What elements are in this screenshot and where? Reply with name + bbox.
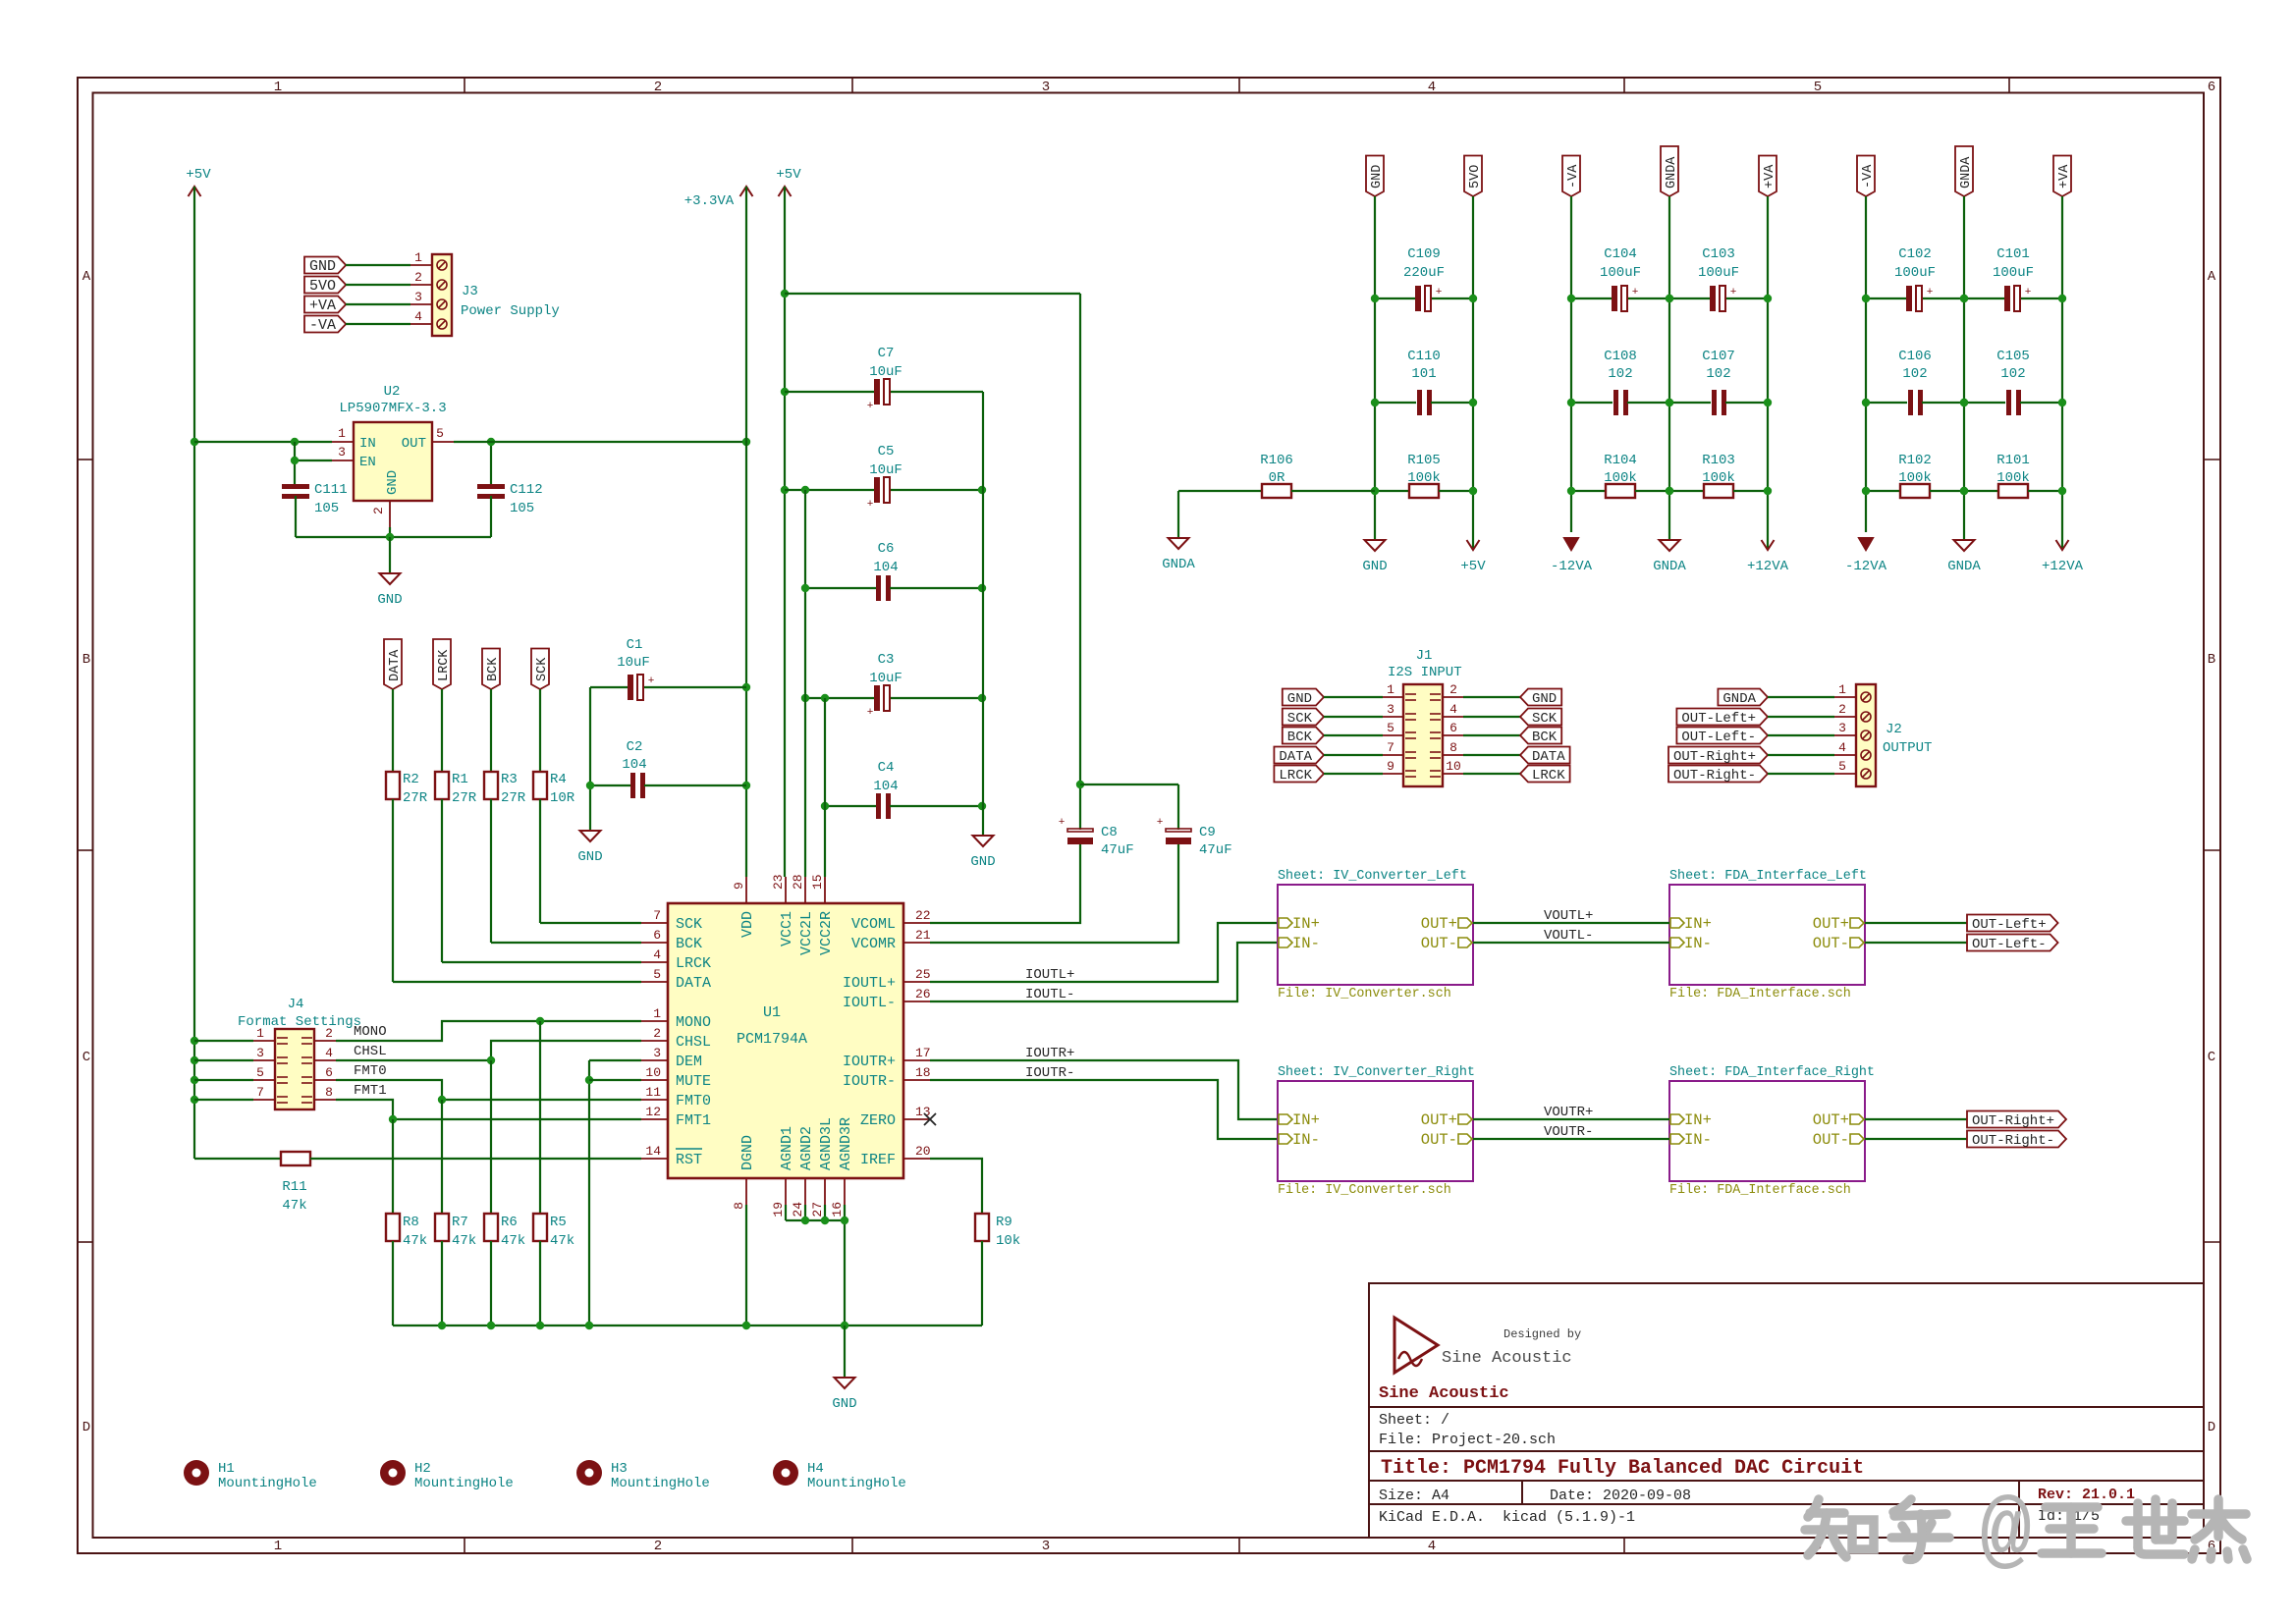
svg-text:+5V: +5V bbox=[776, 167, 801, 183]
svg-text:@: @ bbox=[1980, 1487, 2032, 1584]
svg-text:6: 6 bbox=[653, 928, 661, 943]
power flag -VA bbox=[1562, 156, 1580, 197]
wire FMT1 bbox=[336, 1100, 641, 1119]
wire LRCK to U1 bbox=[441, 799, 443, 962]
net label DATA (J1 left) bbox=[1274, 747, 1324, 764]
svg-text:100uF: 100uF bbox=[1698, 265, 1739, 281]
svg-text:B: B bbox=[82, 652, 90, 668]
svg-text:R2: R2 bbox=[403, 772, 419, 787]
svg-text:OUT-Left+: OUT-Left+ bbox=[1681, 711, 1756, 727]
capacitor C111 105 bbox=[282, 484, 309, 489]
svg-text:VOUTR-: VOUTR- bbox=[1544, 1124, 1593, 1140]
capacitor C8 47uF bbox=[1067, 829, 1093, 832]
svg-text:SCK: SCK bbox=[676, 916, 702, 933]
svg-text:102: 102 bbox=[1902, 366, 1927, 382]
svg-text:FMT1: FMT1 bbox=[354, 1083, 387, 1099]
svg-text:MUTE: MUTE bbox=[676, 1073, 711, 1090]
svg-text:File: Project-20.sch: File: Project-20.sch bbox=[1379, 1432, 1556, 1448]
svg-text:IN+: IN+ bbox=[1292, 1111, 1320, 1129]
resistor R6 47k bbox=[484, 1214, 498, 1241]
svg-text:2: 2 bbox=[414, 270, 422, 285]
svg-text:C6: C6 bbox=[878, 541, 895, 557]
global label DATA bbox=[384, 639, 402, 689]
svg-text:104: 104 bbox=[622, 757, 646, 773]
power +12VA bbox=[1762, 540, 1775, 550]
wire J1 pin 8 bbox=[1443, 754, 1463, 756]
svg-text:Sine Acoustic: Sine Acoustic bbox=[1442, 1349, 1572, 1368]
svg-text:File: FDA_Interface.sch: File: FDA_Interface.sch bbox=[1669, 987, 1851, 1001]
svg-text:BCK: BCK bbox=[676, 936, 702, 952]
wire VCOMR bbox=[930, 844, 1178, 943]
wire +12VA column bbox=[1767, 196, 1769, 548]
logo Sine Acoustic bbox=[1394, 1318, 1438, 1373]
svg-text:9: 9 bbox=[1387, 759, 1394, 774]
svg-text:R101: R101 bbox=[1996, 453, 2030, 468]
svg-text:+5V: +5V bbox=[186, 167, 211, 183]
wire MONO bbox=[336, 1021, 641, 1041]
net label SCK (J1 right) bbox=[1520, 709, 1561, 726]
wire RST to U1 bbox=[310, 1158, 641, 1160]
mounting hole H4 bbox=[773, 1460, 798, 1486]
svg-text:IOUTL+: IOUTL+ bbox=[843, 975, 896, 992]
svg-text:GND: GND bbox=[1287, 691, 1312, 707]
svg-text:IOUTR-: IOUTR- bbox=[843, 1073, 896, 1090]
net label 5VO (J3) bbox=[304, 277, 346, 294]
wire U2 EN bbox=[295, 460, 332, 461]
net label OUT-Left+ (J2) bbox=[1676, 709, 1768, 726]
svg-text:GND: GND bbox=[832, 1396, 856, 1412]
svg-text:OUT-Right+: OUT-Right+ bbox=[1972, 1113, 2054, 1129]
svg-text:MountingHole: MountingHole bbox=[807, 1476, 906, 1491]
svg-text:47uF: 47uF bbox=[1199, 842, 1232, 858]
svg-text:IN+: IN+ bbox=[1684, 1111, 1712, 1129]
net label SCK (J1 left) bbox=[1283, 709, 1324, 726]
svg-text:DATA: DATA bbox=[676, 975, 711, 992]
svg-text:C109: C109 bbox=[1407, 246, 1441, 262]
svg-text:102: 102 bbox=[2000, 366, 2025, 382]
svg-text:C103: C103 bbox=[1702, 246, 1735, 262]
wire J1 pin 7 bbox=[1324, 754, 1383, 756]
svg-text:12: 12 bbox=[645, 1105, 661, 1119]
svg-text:28: 28 bbox=[791, 874, 805, 890]
svg-text:R4: R4 bbox=[550, 772, 567, 787]
svg-text:R11: R11 bbox=[282, 1179, 306, 1195]
wire DATA to U1 bbox=[392, 799, 394, 982]
svg-text:U2: U2 bbox=[384, 384, 401, 400]
svg-text:OUT+: OUT+ bbox=[1813, 1111, 1849, 1129]
svg-text:SCK: SCK bbox=[1532, 711, 1558, 727]
resistor R2 27R bbox=[386, 772, 400, 799]
wire J1 pin 3 bbox=[1324, 716, 1383, 718]
net label LRCK (J1 right) bbox=[1520, 766, 1570, 783]
svg-text:IN-: IN- bbox=[1292, 1131, 1320, 1149]
svg-text:Size: A4: Size: A4 bbox=[1379, 1488, 1449, 1504]
svg-text:-12VA: -12VA bbox=[1845, 559, 1887, 574]
svg-text:MountingHole: MountingHole bbox=[414, 1476, 514, 1491]
wire J2 pin 4 bbox=[1768, 754, 1834, 756]
svg-text:Rev: 21.0.1: Rev: 21.0.1 bbox=[2038, 1487, 2135, 1503]
global label LRCK bbox=[433, 639, 451, 689]
svg-text:MONO: MONO bbox=[354, 1024, 387, 1040]
svg-text:OUT+: OUT+ bbox=[1813, 915, 1849, 933]
wire J1 pin 5 bbox=[1324, 734, 1383, 736]
svg-text:2: 2 bbox=[654, 1539, 662, 1554]
svg-text:LP5907MFX-3.3: LP5907MFX-3.3 bbox=[339, 401, 446, 416]
svg-text:21: 21 bbox=[915, 928, 931, 943]
svg-text:IOUTR+: IOUTR+ bbox=[1025, 1046, 1074, 1061]
wire R5 column bbox=[539, 1021, 541, 1214]
resistor R7 47k bbox=[435, 1214, 449, 1241]
svg-text:EN: EN bbox=[359, 455, 376, 470]
net label BCK (J1 left) bbox=[1283, 728, 1324, 744]
svg-text:SCK: SCK bbox=[535, 657, 550, 681]
svg-text:17: 17 bbox=[915, 1046, 931, 1060]
resistor R3 27R bbox=[484, 772, 498, 799]
wire IOUTR+ bbox=[930, 1060, 1278, 1119]
svg-text:-VA: -VA bbox=[1566, 164, 1581, 189]
svg-text:1: 1 bbox=[414, 250, 422, 265]
svg-text:LRCK: LRCK bbox=[1279, 768, 1312, 784]
svg-text:27R: 27R bbox=[452, 790, 477, 806]
svg-text:2: 2 bbox=[654, 80, 662, 95]
mounting hole H3 bbox=[576, 1460, 602, 1486]
svg-text:+: + bbox=[1059, 817, 1066, 829]
svg-text:C112: C112 bbox=[510, 482, 543, 498]
svg-text:R105: R105 bbox=[1407, 453, 1441, 468]
svg-text:OUT-Left-: OUT-Left- bbox=[1681, 730, 1756, 745]
svg-text:C1: C1 bbox=[627, 637, 643, 653]
svg-text:MONO: MONO bbox=[676, 1014, 711, 1031]
wire R8 column bbox=[392, 1119, 394, 1214]
svg-text:Sheet: FDA_Interface_Right: Sheet: FDA_Interface_Right bbox=[1669, 1065, 1875, 1080]
ground GND (U2) bbox=[380, 573, 401, 584]
power +5V bbox=[1467, 540, 1480, 550]
svg-text:KiCad E.D.A. kicad (5.1.9)-1: KiCad E.D.A. kicad (5.1.9)-1 bbox=[1379, 1509, 1635, 1526]
svg-text:VDD: VDD bbox=[739, 911, 756, 938]
svg-text:47k: 47k bbox=[452, 1233, 476, 1249]
svg-text:104: 104 bbox=[873, 560, 898, 575]
wire FMT0 bbox=[336, 1080, 641, 1100]
svg-text:105: 105 bbox=[510, 501, 534, 516]
svg-text:+: + bbox=[648, 676, 655, 687]
wire J2 pin 2 bbox=[1768, 716, 1834, 718]
wire CHSL bbox=[336, 1059, 491, 1061]
global label SCK bbox=[531, 649, 549, 690]
svg-text:27R: 27R bbox=[403, 790, 428, 806]
svg-text:I2S INPUT: I2S INPUT bbox=[1388, 665, 1462, 680]
hierarchical label OUT-Right- bbox=[1967, 1131, 2066, 1148]
svg-text:B: B bbox=[2208, 652, 2215, 668]
svg-text:IN: IN bbox=[359, 436, 376, 452]
svg-text:LRCK: LRCK bbox=[676, 955, 711, 972]
svg-text:+: + bbox=[867, 707, 874, 719]
net label OUT-Right+ (J2) bbox=[1668, 747, 1768, 764]
svg-text:DGND: DGND bbox=[739, 1135, 756, 1170]
svg-text:D: D bbox=[2208, 1420, 2215, 1435]
svg-text:4: 4 bbox=[1449, 702, 1457, 717]
ground GND (cap stack) bbox=[973, 836, 994, 846]
wire SCK to U1 bbox=[539, 799, 541, 923]
power -12VA bbox=[1564, 538, 1578, 550]
net label OUT-Right- (J2) bbox=[1668, 766, 1768, 783]
svg-text:MountingHole: MountingHole bbox=[218, 1476, 317, 1491]
svg-text:8: 8 bbox=[732, 1202, 746, 1210]
svg-text:C111: C111 bbox=[314, 482, 348, 498]
svg-text:CHSL: CHSL bbox=[354, 1044, 387, 1059]
svg-text:3: 3 bbox=[653, 1046, 661, 1060]
no-connect ZERO pin 13 bbox=[924, 1113, 936, 1125]
svg-text:+VA: +VA bbox=[309, 298, 336, 314]
svg-text:+: + bbox=[1730, 287, 1737, 298]
wire U2 OUT 3.3VA bbox=[454, 441, 746, 443]
svg-text:5: 5 bbox=[653, 967, 661, 982]
wire J3 pins bbox=[346, 264, 410, 266]
wire ground bus bbox=[393, 1325, 982, 1326]
svg-text:23: 23 bbox=[771, 874, 786, 890]
svg-text:AGND2: AGND2 bbox=[798, 1126, 815, 1170]
wire R7 to bus bbox=[441, 1241, 443, 1325]
wire RST bbox=[194, 1158, 281, 1160]
svg-text:GND: GND bbox=[385, 470, 401, 495]
watermark zhihu bbox=[1805, 1499, 1949, 1559]
hierarchical label OUT-Left- bbox=[1967, 935, 2058, 951]
svg-text:C2: C2 bbox=[627, 739, 643, 755]
svg-text:20: 20 bbox=[915, 1144, 931, 1159]
svg-text:R9: R9 bbox=[996, 1215, 1012, 1230]
svg-text:-VA: -VA bbox=[1861, 164, 1876, 189]
svg-text:10uF: 10uF bbox=[617, 655, 650, 671]
svg-text:47k: 47k bbox=[550, 1233, 574, 1249]
svg-text:IOUTL-: IOUTL- bbox=[1025, 987, 1074, 1002]
power GND bbox=[1365, 540, 1386, 551]
net label GND (J3) bbox=[304, 257, 346, 274]
svg-text:J4: J4 bbox=[288, 997, 304, 1012]
net label BCK (J1 right) bbox=[1520, 728, 1561, 744]
svg-text:File: IV_Converter.sch: File: IV_Converter.sch bbox=[1278, 987, 1451, 1001]
wire C1/C2 ground column bbox=[589, 687, 591, 831]
net label LRCK (J1 left) bbox=[1274, 766, 1324, 783]
svg-text:5: 5 bbox=[1814, 80, 1822, 95]
wire IOUTR- bbox=[930, 1080, 1278, 1139]
svg-text:GNDA: GNDA bbox=[1665, 156, 1679, 189]
hierarchical label OUT-Left+ bbox=[1967, 915, 2058, 932]
svg-text:Designed by: Designed by bbox=[1503, 1327, 1581, 1341]
svg-text:OUT-Left+: OUT-Left+ bbox=[1972, 917, 2047, 933]
svg-text:10R: 10R bbox=[550, 790, 575, 806]
svg-text:GNDA: GNDA bbox=[1653, 559, 1686, 574]
svg-text:C104: C104 bbox=[1604, 246, 1637, 262]
resistor R9 10k bbox=[975, 1214, 989, 1241]
svg-text:FMT0: FMT0 bbox=[676, 1093, 711, 1109]
svg-text:5: 5 bbox=[436, 426, 444, 441]
wire OUT-Right- bbox=[1865, 1138, 1967, 1140]
svg-text:Sheet: IV_Converter_Right: Sheet: IV_Converter_Right bbox=[1278, 1065, 1475, 1080]
svg-text:Sine Acoustic: Sine Acoustic bbox=[1379, 1384, 1509, 1403]
wire LRCK to resistor bbox=[441, 689, 443, 772]
svg-text:2: 2 bbox=[1838, 702, 1846, 717]
svg-text:10: 10 bbox=[1446, 759, 1461, 774]
svg-text:GND: GND bbox=[1362, 559, 1387, 574]
svg-text:47k: 47k bbox=[501, 1233, 525, 1249]
wire SCK to resistor bbox=[539, 689, 541, 772]
svg-text:+: + bbox=[1927, 287, 1934, 298]
svg-text:10: 10 bbox=[645, 1065, 661, 1080]
title block bbox=[1369, 1283, 2204, 1538]
wire GNDA column bbox=[1963, 196, 1965, 540]
svg-text:7: 7 bbox=[1387, 740, 1394, 755]
svg-text:OUT: OUT bbox=[402, 436, 426, 452]
net label GNDA (J2) bbox=[1718, 689, 1768, 706]
wire J1 pin 9 bbox=[1324, 773, 1383, 775]
wire J1 pin 4 bbox=[1443, 716, 1463, 718]
svg-text:+VA: +VA bbox=[1763, 164, 1777, 189]
svg-text:4: 4 bbox=[1838, 740, 1846, 755]
svg-text:C101: C101 bbox=[1996, 246, 2030, 262]
U1 right pin stubs and numbers bbox=[903, 922, 930, 924]
svg-text:+: + bbox=[867, 499, 874, 511]
wire R6 to bus bbox=[490, 1241, 492, 1325]
net label -VA (J3) bbox=[304, 316, 346, 333]
svg-text:27: 27 bbox=[810, 1202, 825, 1217]
U1 top pin stubs and numbers bbox=[745, 877, 747, 903]
svg-text:VCC2R: VCC2R bbox=[818, 911, 835, 955]
svg-text:C110: C110 bbox=[1407, 349, 1441, 364]
svg-text:GNDA: GNDA bbox=[1947, 559, 1981, 574]
svg-text:VCC2L: VCC2L bbox=[798, 911, 815, 955]
wire VOUTR- bbox=[1473, 1138, 1669, 1140]
wire DATA to resistor bbox=[392, 689, 394, 772]
hierarchical label OUT-Right+ bbox=[1967, 1111, 2066, 1128]
wire OUT-Left- bbox=[1865, 942, 1967, 944]
svg-text:8: 8 bbox=[325, 1085, 333, 1100]
svg-text:Title: PCM1794 Fully Balanced: Title: PCM1794 Fully Balanced DAC Circui… bbox=[1381, 1457, 1864, 1480]
resistor R8 47k bbox=[386, 1214, 400, 1241]
svg-text:OUT-: OUT- bbox=[1421, 935, 1457, 952]
wire R6 column bbox=[490, 1060, 492, 1214]
svg-text:VCC1: VCC1 bbox=[779, 911, 795, 947]
svg-text:1: 1 bbox=[274, 80, 282, 95]
svg-text:5VO: 5VO bbox=[309, 278, 336, 295]
svg-text:27R: 27R bbox=[501, 790, 526, 806]
svg-text:2: 2 bbox=[653, 1026, 661, 1041]
ground GND (bus) bbox=[844, 1325, 846, 1378]
power flag +VA bbox=[1759, 156, 1777, 197]
svg-text:AGND1: AGND1 bbox=[779, 1126, 795, 1170]
wire J2 pin 1 bbox=[1768, 696, 1834, 698]
wire J1 pin 6 bbox=[1443, 734, 1463, 736]
wire DGND column bbox=[745, 1205, 747, 1325]
svg-text:R103: R103 bbox=[1702, 453, 1735, 468]
svg-text:10uF: 10uF bbox=[869, 462, 902, 478]
wire +12VA column bbox=[2061, 196, 2063, 548]
connector J3 bbox=[432, 254, 452, 336]
svg-text:CHSL: CHSL bbox=[676, 1034, 711, 1051]
svg-text:VOUTL+: VOUTL+ bbox=[1544, 908, 1593, 924]
svg-text:11: 11 bbox=[645, 1085, 661, 1100]
svg-text:Date: 2020-09-08: Date: 2020-09-08 bbox=[1550, 1488, 1691, 1504]
wire AGND join bbox=[785, 1205, 787, 1220]
svg-text:3: 3 bbox=[1387, 702, 1394, 717]
power flag GNDA bbox=[1955, 146, 1973, 196]
svg-text:R1: R1 bbox=[452, 772, 468, 787]
wire IOUTL+ bbox=[930, 923, 1278, 982]
ground GNDA (R106) bbox=[1169, 538, 1189, 549]
svg-text:47k: 47k bbox=[403, 1233, 427, 1249]
svg-text:3: 3 bbox=[1042, 1539, 1050, 1554]
wire R8 to bus bbox=[392, 1241, 394, 1325]
svg-text:LRCK: LRCK bbox=[437, 649, 452, 681]
svg-text:DATA: DATA bbox=[1279, 749, 1312, 765]
svg-text:Sheet: IV_Converter_Left: Sheet: IV_Converter_Left bbox=[1278, 869, 1467, 884]
svg-text:R6: R6 bbox=[501, 1215, 518, 1230]
svg-text:IN-: IN- bbox=[1684, 1131, 1712, 1149]
svg-text:+VA: +VA bbox=[2057, 164, 2072, 189]
svg-text:IOUTR-: IOUTR- bbox=[1025, 1065, 1074, 1081]
svg-text:102: 102 bbox=[1706, 366, 1730, 382]
wire -12VA column bbox=[1570, 196, 1572, 532]
svg-text:C105: C105 bbox=[1996, 349, 2030, 364]
wire +5V column bbox=[1472, 196, 1474, 548]
svg-text:VOUTL-: VOUTL- bbox=[1544, 928, 1593, 944]
svg-text:3: 3 bbox=[338, 445, 346, 460]
wire VCC1 column bbox=[784, 187, 786, 877]
svg-text:RST: RST bbox=[676, 1152, 702, 1168]
svg-text:22: 22 bbox=[915, 908, 931, 923]
svg-text:+12VA: +12VA bbox=[1747, 559, 1789, 574]
wire R5 to bus bbox=[539, 1241, 541, 1325]
svg-text:4: 4 bbox=[414, 309, 422, 324]
ground GND (C1 C2) bbox=[580, 831, 601, 841]
svg-text:19: 19 bbox=[771, 1202, 786, 1217]
svg-text:OUTPUT: OUTPUT bbox=[1883, 740, 1932, 756]
svg-text:4: 4 bbox=[1428, 1539, 1436, 1554]
svg-text:C: C bbox=[2208, 1050, 2215, 1065]
svg-text:AGND3L: AGND3L bbox=[818, 1117, 835, 1170]
svg-text:OUT-: OUT- bbox=[1813, 1131, 1849, 1149]
svg-text:24: 24 bbox=[791, 1202, 805, 1217]
svg-text:2: 2 bbox=[371, 507, 386, 514]
svg-text:3: 3 bbox=[1042, 80, 1050, 95]
svg-text:IN-: IN- bbox=[1684, 935, 1712, 952]
svg-text:C9: C9 bbox=[1199, 825, 1216, 840]
svg-text:6: 6 bbox=[1449, 721, 1457, 735]
svg-text:100uF: 100uF bbox=[1894, 265, 1936, 281]
svg-text:26: 26 bbox=[915, 987, 931, 1001]
svg-text:+: + bbox=[867, 401, 874, 412]
power flag GNDA bbox=[1661, 146, 1678, 196]
svg-text:MountingHole: MountingHole bbox=[611, 1476, 710, 1491]
net label GND (J1 left) bbox=[1283, 689, 1324, 706]
power flag +VA bbox=[2053, 156, 2071, 197]
svg-text:BCK: BCK bbox=[1287, 730, 1313, 745]
wire VOUTL- bbox=[1473, 942, 1669, 944]
svg-text:8: 8 bbox=[1449, 740, 1457, 755]
svg-text:J1: J1 bbox=[1416, 648, 1433, 664]
svg-text:GND: GND bbox=[1370, 165, 1385, 189]
svg-text:File: IV_Converter.sch: File: IV_Converter.sch bbox=[1278, 1183, 1451, 1198]
net label +VA (J3) bbox=[304, 297, 346, 313]
svg-text:OUT-Right-: OUT-Right- bbox=[1972, 1133, 2054, 1149]
svg-text:GND: GND bbox=[309, 258, 336, 275]
svg-text:1: 1 bbox=[653, 1006, 661, 1021]
wire IREF to R9 bbox=[930, 1159, 982, 1214]
svg-text:7: 7 bbox=[653, 908, 661, 923]
svg-text:+: + bbox=[1436, 287, 1443, 298]
svg-text:A: A bbox=[2208, 269, 2216, 285]
wire VDD column bbox=[745, 187, 747, 877]
svg-text:IOUTR+: IOUTR+ bbox=[843, 1054, 896, 1070]
svg-text:OUT+: OUT+ bbox=[1421, 915, 1457, 933]
